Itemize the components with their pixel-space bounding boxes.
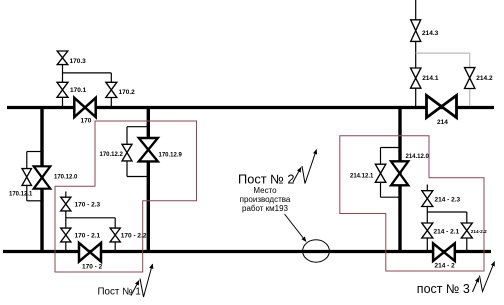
svg-text:170 - 2.2: 170 - 2.2 <box>121 233 147 240</box>
wire <box>415 0 417 20</box>
wire gray bypass top <box>416 52 470 54</box>
wire <box>426 185 428 191</box>
wire <box>65 242 67 251</box>
svg-text:170.12.0: 170.12.0 <box>54 175 78 181</box>
valve 170.12.1 <box>22 169 32 186</box>
riser wire right (node 214.12) <box>398 108 401 252</box>
valve 170.1 <box>57 82 68 97</box>
valve 214-2 <box>433 243 455 261</box>
svg-text:214 - 2.1: 214 - 2.1 <box>434 228 460 235</box>
svg-text:214.12.1: 214.12.1 <box>350 174 374 180</box>
valve 170-2 <box>79 243 101 262</box>
wire <box>62 97 64 106</box>
wire <box>415 88 417 106</box>
wire <box>466 212 468 223</box>
svg-text:170 - 2: 170 - 2 <box>82 264 103 271</box>
svg-text:214-2.2: 214-2.2 <box>471 229 487 234</box>
wire <box>127 176 148 178</box>
svg-text:214.3: 214.3 <box>422 30 439 37</box>
node work site circle <box>303 240 330 262</box>
zone boundary post 3 <box>340 136 484 271</box>
wire <box>26 185 28 200</box>
wire <box>65 211 67 228</box>
wire <box>427 211 467 213</box>
zone boundary post 1 <box>55 121 197 272</box>
svg-text:производства: производства <box>240 195 291 204</box>
wire <box>126 161 128 177</box>
svg-text:170 - 2.1: 170 - 2.1 <box>75 233 101 240</box>
svg-text:170.3: 170.3 <box>70 58 87 65</box>
callout arrow post 2 <box>293 168 301 183</box>
callout arrow post 3 <box>473 278 479 293</box>
wire <box>380 182 382 197</box>
wire <box>27 200 42 202</box>
wire <box>466 238 468 251</box>
svg-text:Место: Место <box>253 186 277 195</box>
valve 214.3 <box>411 20 421 42</box>
wire gray bypass right upper <box>469 53 471 68</box>
riser wire middle (node 170.12.9) <box>147 108 150 252</box>
wire <box>126 127 128 145</box>
valve 170-2.3 <box>61 197 71 211</box>
svg-text:214: 214 <box>437 119 448 126</box>
wire <box>66 217 115 219</box>
valve 214 <box>427 95 457 117</box>
wire <box>380 148 382 165</box>
valve 214.12.1 <box>375 164 386 182</box>
svg-text:170.12.9: 170.12.9 <box>159 153 183 159</box>
valve 214.2 <box>465 68 475 89</box>
wire <box>26 152 28 169</box>
wire <box>426 207 428 224</box>
svg-text:214 - 2.3: 214 - 2.3 <box>435 196 461 203</box>
svg-text:214.12.0: 214.12.0 <box>406 154 430 160</box>
valve 170.12.9 <box>139 138 158 161</box>
valve 170-2.2 <box>110 228 120 242</box>
wire <box>110 73 112 82</box>
wire <box>63 72 112 74</box>
svg-text:214 - 2: 214 - 2 <box>435 262 456 269</box>
wire <box>381 147 401 149</box>
valve 170.2 <box>106 82 117 97</box>
wire <box>381 196 401 198</box>
svg-text:214.2: 214.2 <box>476 75 493 82</box>
valve 214-2.1 <box>422 223 433 238</box>
valve 170-2.1 <box>61 228 71 242</box>
svg-text:Пост № 1: Пост № 1 <box>98 287 141 298</box>
callout arrow post 1 <box>131 281 139 296</box>
svg-text:170 - 2.3: 170 - 2.3 <box>75 202 101 209</box>
valve 170.3 <box>57 51 68 65</box>
valve 214-2.3 <box>422 191 433 207</box>
wire <box>62 65 64 83</box>
wire <box>127 126 148 128</box>
svg-text:170.12.2: 170.12.2 <box>100 152 124 158</box>
riser wire left (node 170.12) <box>40 108 43 252</box>
wire <box>27 151 42 153</box>
svg-text:Пост № 2: Пост № 2 <box>238 172 295 187</box>
wire <box>426 238 428 251</box>
wire gray bypass right lower <box>469 89 471 107</box>
callout arrow work site <box>285 214 307 242</box>
svg-text:170: 170 <box>81 117 92 124</box>
valve 214.1 <box>411 68 421 88</box>
valve 214-2.2 <box>461 223 472 238</box>
wire <box>65 192 67 198</box>
valve 214.12.0 <box>391 161 408 185</box>
valve 170.12.2 <box>122 144 132 161</box>
wire <box>114 218 116 228</box>
svg-text:работ км193: работ км193 <box>242 204 289 213</box>
wire <box>415 41 417 68</box>
top pipeline <box>7 106 494 109</box>
svg-text:214.1: 214.1 <box>422 75 439 82</box>
valve 170 <box>74 98 95 117</box>
bottom pipeline <box>3 250 491 253</box>
svg-text:170.1: 170.1 <box>70 87 87 94</box>
svg-text:170.12.1: 170.12.1 <box>9 192 33 198</box>
svg-text:170.2: 170.2 <box>119 89 136 96</box>
valve 170.12.0 <box>34 166 51 188</box>
svg-text:пост № 3: пост № 3 <box>417 282 470 296</box>
wire <box>110 98 112 107</box>
wire <box>114 242 116 251</box>
